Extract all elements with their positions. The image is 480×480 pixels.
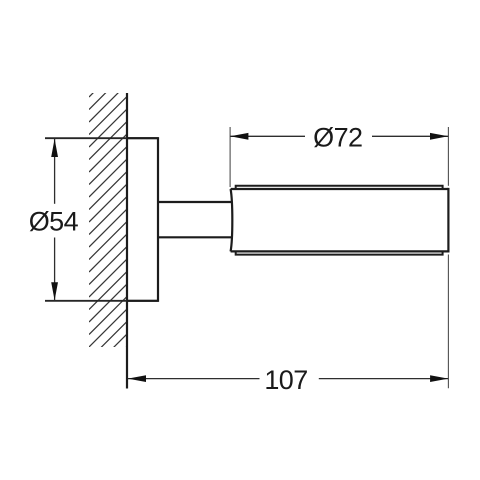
extension line right (Ø72 / 107) — [447, 127, 449, 388]
extension line left (Ø72) — [229, 127, 231, 187]
svg-text:Ø54: Ø54 — [29, 207, 79, 237]
svg-text:107: 107 — [264, 365, 307, 395]
holder rim top — [236, 186, 443, 189]
dimension Ø54 line — [54, 139, 56, 301]
dimension Ø54 arrow down — [51, 282, 58, 300]
holder rim bottom — [236, 251, 443, 254]
dimension Ø72 arrow left — [230, 133, 248, 140]
neck — [158, 202, 232, 237]
dimension 107 arrow right — [430, 375, 448, 382]
extension line top (Ø54) — [45, 137, 158, 139]
extension line bottom (Ø54) — [45, 300, 158, 302]
holder body — [231, 188, 449, 253]
dimension Ø54 arrow up — [51, 139, 58, 157]
dimension Ø72 arrow right — [430, 133, 448, 140]
wall hatching — [89, 57, 129, 385]
svg-text:Ø72: Ø72 — [313, 122, 362, 152]
wall flange — [127, 138, 158, 301]
dimension 107 line — [128, 378, 448, 380]
dimension 107 arrow left — [128, 375, 146, 382]
dimension Ø72 line — [230, 135, 448, 137]
wall line — [126, 93, 128, 389]
